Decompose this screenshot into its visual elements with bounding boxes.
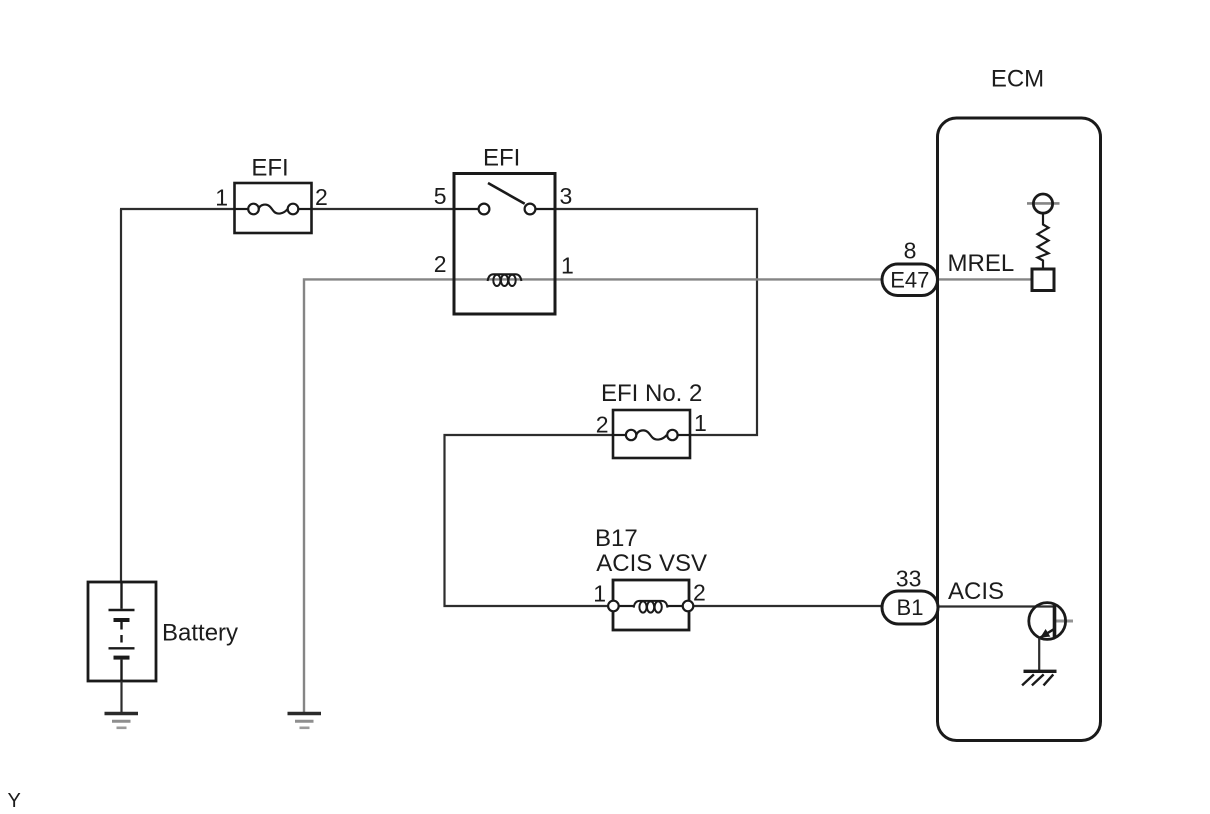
svg-text:EFI No. 2: EFI No. 2 bbox=[601, 380, 702, 407]
wire relay coil internal line (gray, through relay box) bbox=[454, 278, 555, 280]
fuse EFI element: lead, contact circles and wave bbox=[235, 204, 312, 215]
relay EFI (box) bbox=[454, 174, 555, 315]
transistor Q base bar bbox=[1053, 605, 1057, 638]
svg-text:Y: Y bbox=[8, 790, 21, 812]
transistor Q (ACIS driver) collector stub (gray) bbox=[1055, 620, 1073, 623]
svg-text:EFI: EFI bbox=[251, 155, 288, 182]
fuse EFI (box) bbox=[235, 183, 312, 233]
svg-text:ACIS VSV: ACIS VSV bbox=[596, 550, 707, 577]
svg-text:MREL: MREL bbox=[948, 250, 1015, 277]
svg-text:ECM: ECM bbox=[991, 66, 1044, 93]
wire ACIS VSV pin2 to connector B1 bbox=[693, 605, 884, 607]
relay EFI switch contacts bbox=[454, 183, 555, 214]
ground (relay coil return) bbox=[288, 714, 322, 728]
terminal circle (MREL pull-up top) bbox=[1033, 194, 1052, 213]
connector E47 pin 8 (oval) bbox=[882, 264, 938, 296]
battery (box) bbox=[88, 582, 156, 681]
relay EFI coil symbol bbox=[488, 274, 522, 286]
transistor Q circle bbox=[1029, 603, 1066, 640]
svg-text:1: 1 bbox=[561, 253, 574, 279]
svg-text:3: 3 bbox=[560, 183, 573, 209]
battery cell plates bbox=[109, 582, 135, 682]
svg-text:2: 2 bbox=[434, 251, 447, 277]
svg-text:ACIS: ACIS bbox=[948, 578, 1004, 605]
ground (battery) bbox=[105, 714, 139, 728]
svg-text:1: 1 bbox=[593, 581, 606, 607]
transistor Q emitter with arrow bbox=[1039, 629, 1054, 638]
wire node ACIS inside ECM: B1 to transistor base bar bbox=[936, 605, 1055, 607]
fuse EFI No. 2 (box) bbox=[613, 410, 690, 458]
svg-text:B1: B1 bbox=[897, 595, 924, 620]
wire relay coil pin2 left and down to ground (gray net) bbox=[304, 279, 454, 712]
svg-text:1: 1 bbox=[215, 185, 228, 211]
connector B1 pin 33 (oval) bbox=[882, 591, 938, 624]
svg-text:B17: B17 bbox=[595, 525, 638, 552]
svg-text:1: 1 bbox=[694, 410, 707, 436]
resistor (MREL pull-up zigzag) bbox=[1038, 213, 1049, 269]
svg-text:2: 2 bbox=[315, 184, 328, 210]
wire battery feed: left vertical from EFI fuse pin1 down to battery bbox=[120, 209, 122, 582]
wire battery pin1 to EFI fuse pin 1 bbox=[120, 208, 235, 210]
ground (inside ECM, hatched) bbox=[1022, 671, 1056, 685]
wire EFI No.2 fuse pin2 left, down, to ACIS VSV pin 1 bbox=[445, 435, 614, 606]
square terminal (MREL) bbox=[1032, 269, 1054, 291]
svg-text:8: 8 bbox=[904, 238, 917, 264]
battery-plus terminal line (gray) through MREL terminal circle bbox=[1027, 202, 1060, 205]
wire EFI fuse pin2 to relay pin 5 bbox=[312, 208, 455, 210]
svg-text:5: 5 bbox=[434, 183, 447, 209]
svg-text:E47: E47 bbox=[890, 268, 929, 293]
wire transistor emitter to ground bbox=[1038, 638, 1040, 670]
svg-text:Battery: Battery bbox=[162, 620, 238, 647]
svg-text:2: 2 bbox=[596, 412, 609, 438]
wire battery negative to ground bbox=[120, 681, 122, 712]
svg-text:2: 2 bbox=[693, 580, 706, 606]
solenoid B17 ACIS VSV (box) bbox=[613, 580, 689, 630]
wire relay pin3 right then down to EFI No.2 fuse pin 1 bbox=[555, 209, 757, 435]
wire relay coil pin1 to connector E47 (gray MREL net) bbox=[555, 278, 884, 280]
solenoid B17 ACIS VSV coil and pin circles bbox=[608, 601, 693, 613]
ECM (box) bbox=[938, 118, 1101, 741]
svg-text:33: 33 bbox=[896, 566, 922, 592]
wire node MREL inside ECM: E47 to pull-up square bbox=[936, 278, 1032, 280]
svg-text:EFI: EFI bbox=[483, 145, 520, 172]
fuse EFI No. 2 element: contact circles and wave bbox=[613, 430, 690, 440]
